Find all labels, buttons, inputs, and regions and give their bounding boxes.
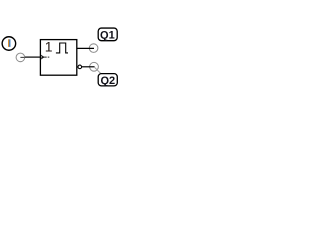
svg-text:Q2: Q2 (100, 75, 115, 87)
svg-text:1: 1 (45, 39, 53, 55)
svg-text:Q1: Q1 (100, 29, 115, 41)
